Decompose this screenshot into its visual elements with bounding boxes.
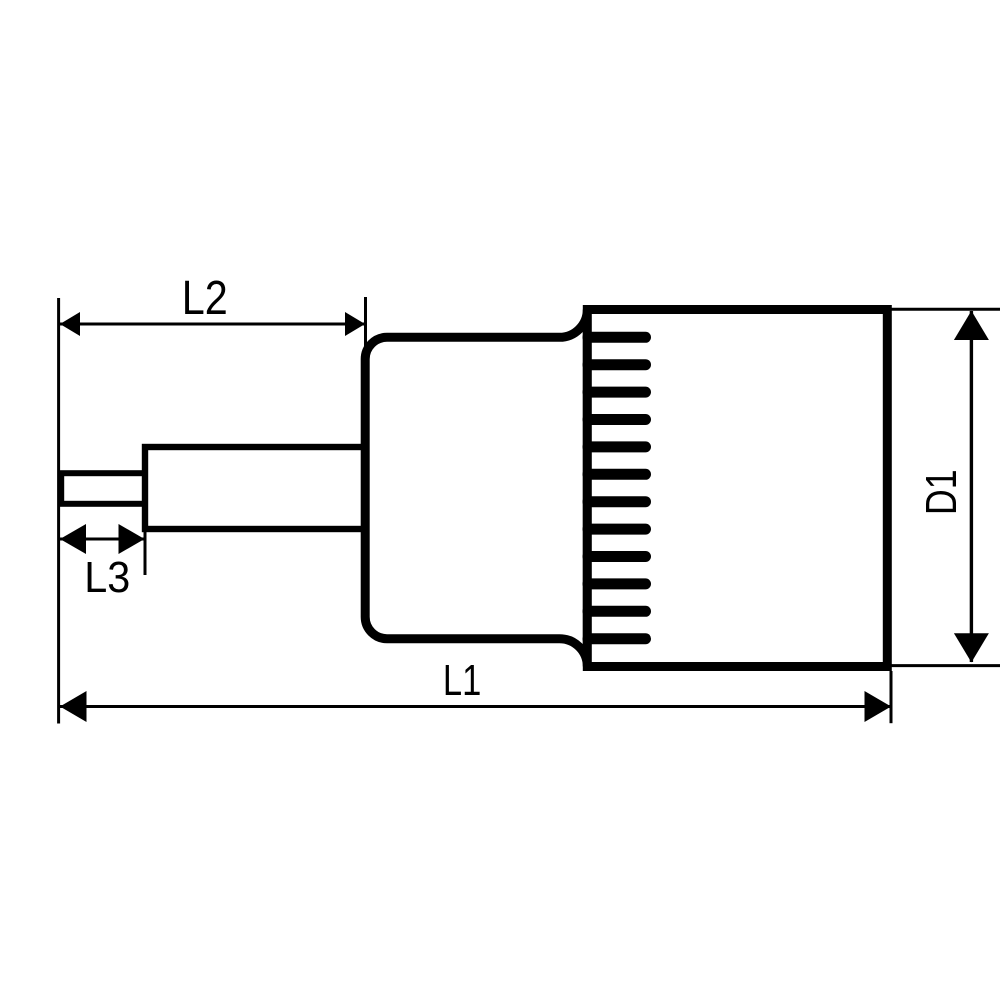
extension line bottom of D1 (887, 664, 1000, 667)
dimension line L1 (60, 705, 891, 708)
arrowhead L2 left (60, 312, 80, 336)
dimension line L2 (60, 323, 365, 326)
arrowhead L1 right (865, 691, 892, 722)
extension line right of L3 (144, 532, 147, 575)
arrowhead L2 right (345, 312, 365, 336)
svg-text:L2: L2 (182, 271, 228, 325)
arrowhead L3 left (60, 524, 86, 554)
dimension line D1 (970, 311, 973, 662)
shaft rectangle (145, 447, 367, 529)
socket body rectangle (587, 310, 887, 667)
arrowhead L3 right (119, 524, 145, 554)
bit tip rectangle (61, 473, 146, 504)
knurl teeth (588, 337, 646, 638)
svg-text:L1: L1 (443, 656, 481, 705)
neck (rounded collar) (365, 310, 587, 667)
extension line left (common for L1/L2/L3) (57, 298, 60, 724)
arrowhead D1 top (954, 311, 989, 340)
dimension line L3 (60, 538, 145, 541)
extension line right of L2 (364, 297, 367, 357)
arrowhead D1 bottom (954, 633, 989, 662)
svg-text:L3: L3 (84, 553, 130, 602)
extension line right of L1 (890, 671, 893, 723)
arrowhead L1 left (60, 691, 87, 722)
extension line top of D1 (887, 308, 1000, 311)
svg-text:D1: D1 (917, 469, 965, 515)
